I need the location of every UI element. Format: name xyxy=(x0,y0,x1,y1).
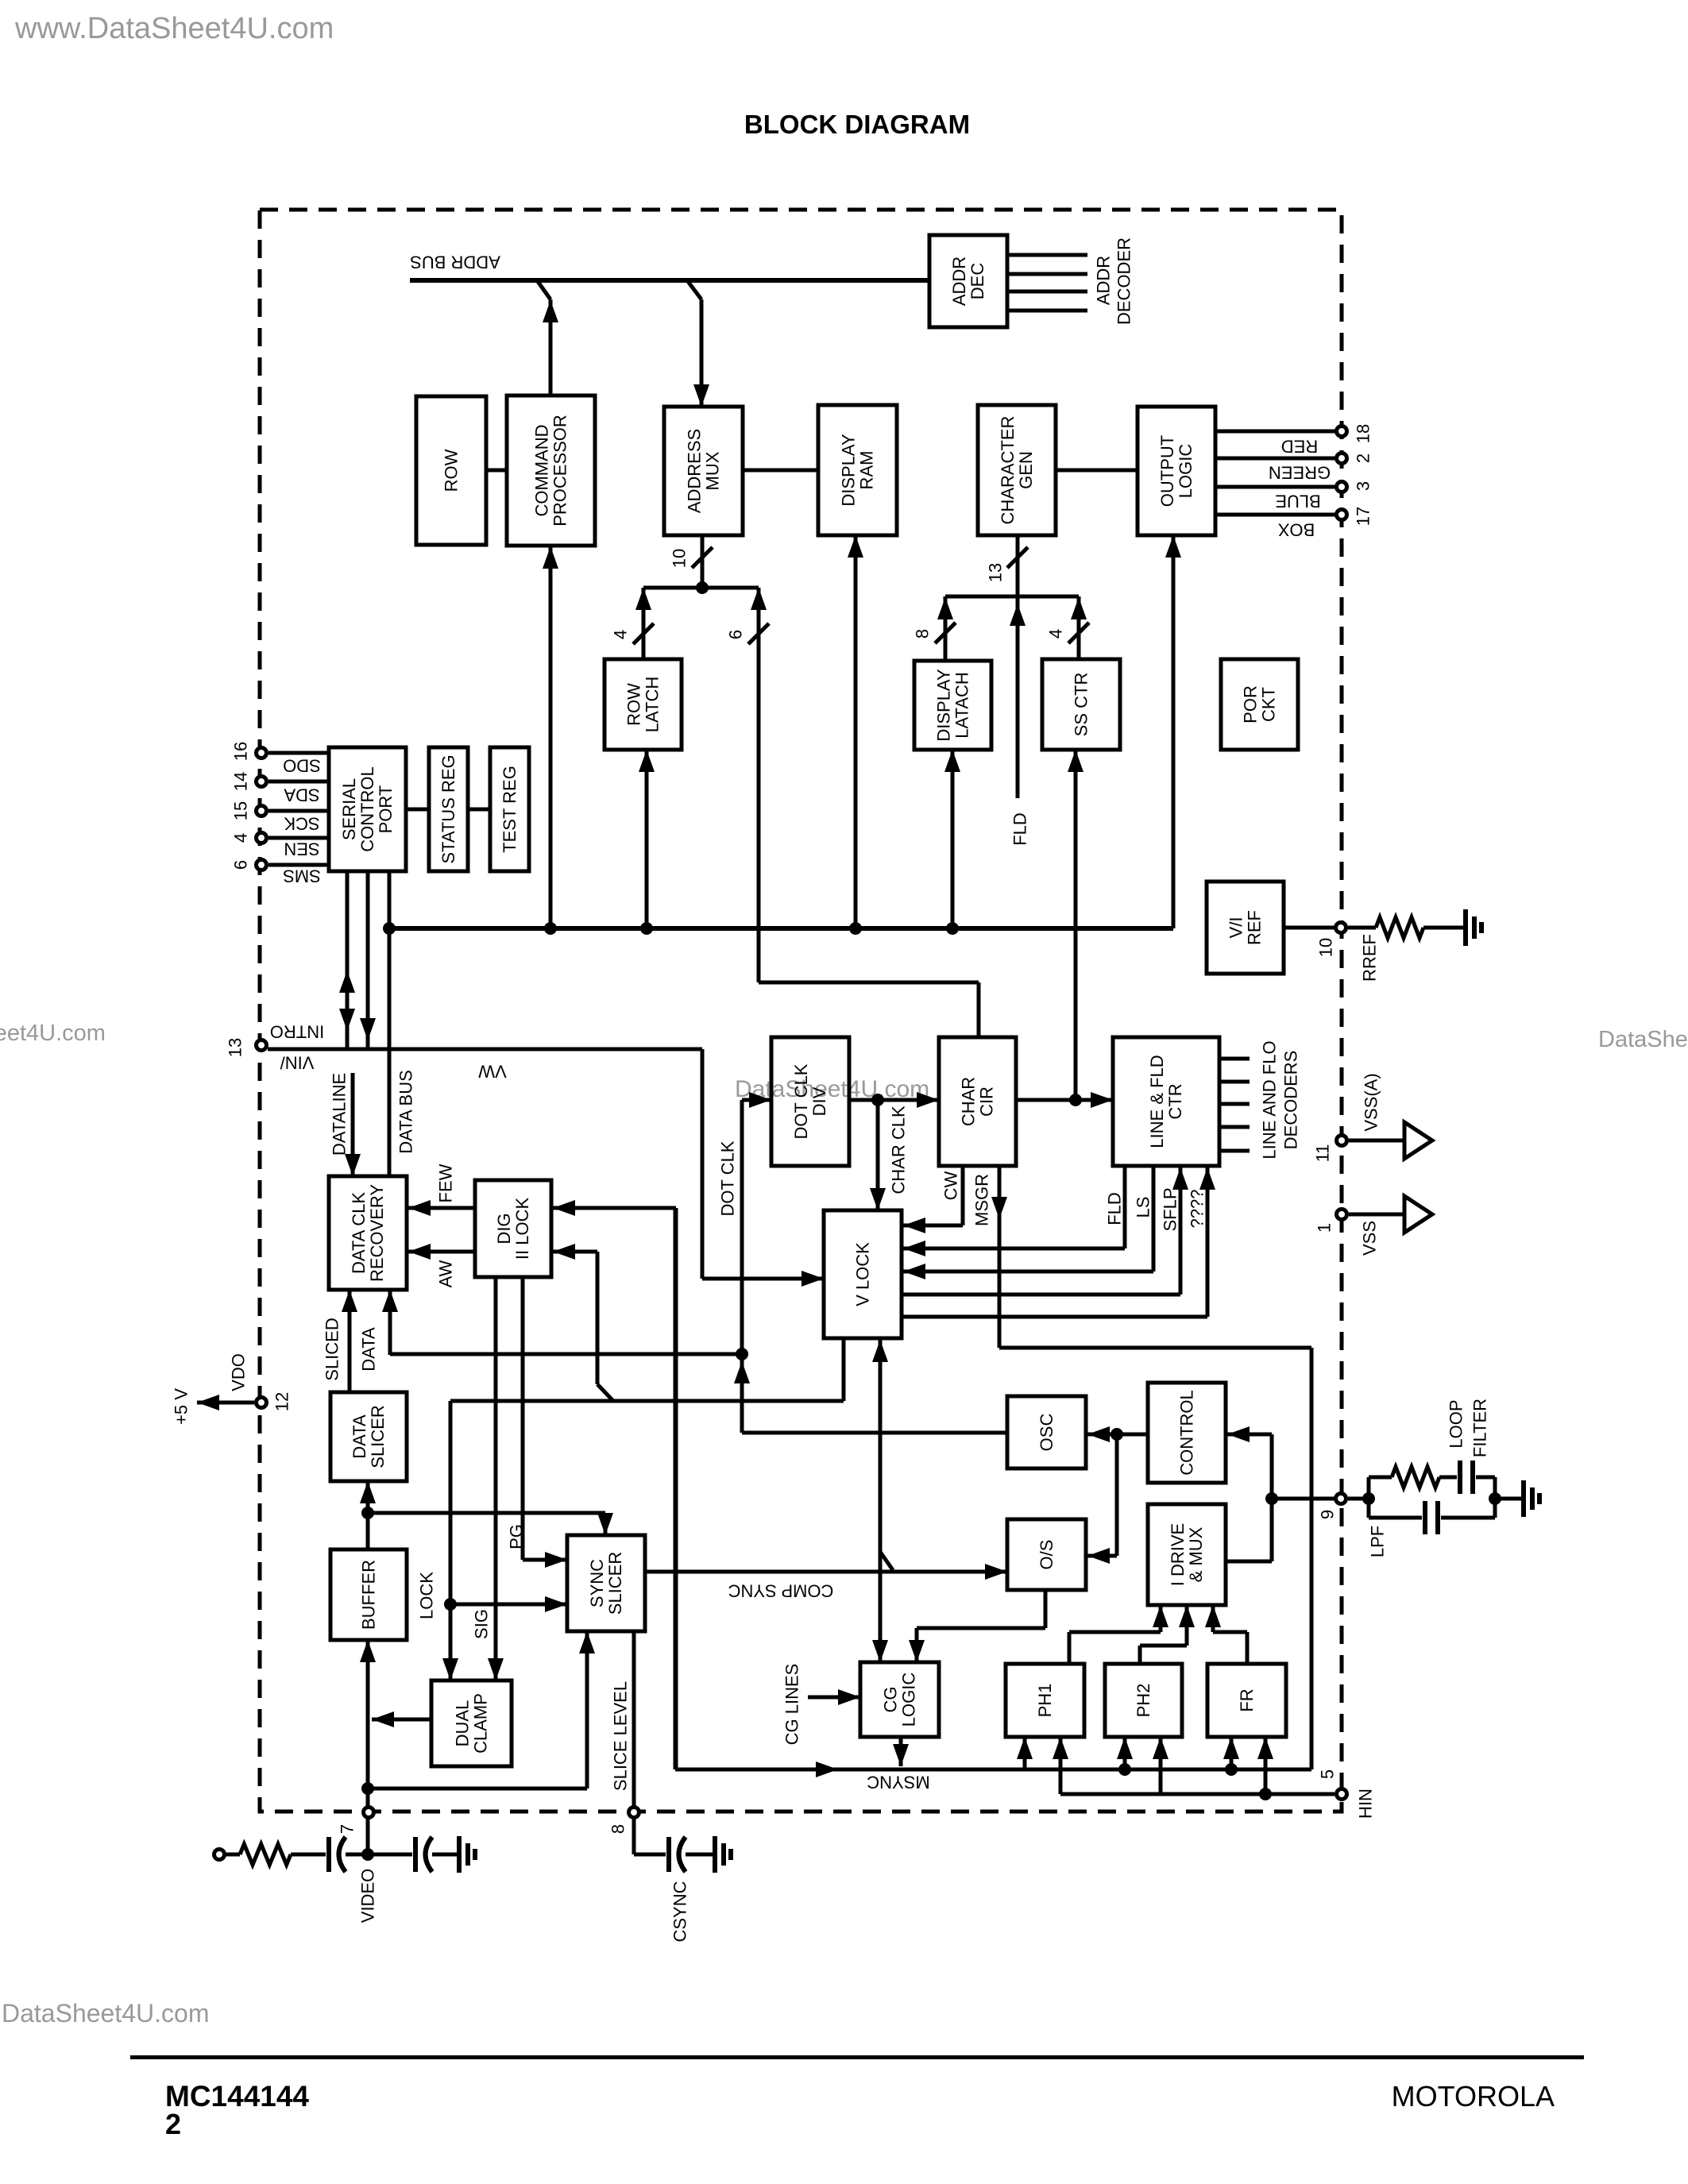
svg-text:10: 10 xyxy=(1316,938,1336,957)
svg-text:VIN/: VIN/ xyxy=(280,1052,315,1072)
svg-text:2: 2 xyxy=(1354,453,1373,463)
svg-text:????: ???? xyxy=(1188,1190,1207,1229)
svg-text:ADDR BUS: ADDR BUS xyxy=(410,252,500,272)
svg-text:5: 5 xyxy=(1318,1769,1338,1779)
svg-text:COMMANDPROCESSOR: COMMANDPROCESSOR xyxy=(532,415,570,527)
svg-text:O/S: O/S xyxy=(1037,1540,1056,1570)
svg-text:DUALCLAMP: DUALCLAMP xyxy=(453,1693,491,1754)
svg-text:BUFFER: BUFFER xyxy=(359,1560,379,1630)
svg-text:8: 8 xyxy=(913,629,933,639)
svg-text:CHAR CLK: CHAR CLK xyxy=(889,1106,909,1194)
svg-text:4: 4 xyxy=(611,630,631,639)
svg-text:ROWLATCH: ROWLATCH xyxy=(624,677,662,733)
svg-text:DataSheet4U.com: DataSheet4U.com xyxy=(0,1021,106,1046)
svg-text:15: 15 xyxy=(231,801,251,820)
svg-text:FLD: FLD xyxy=(1010,812,1030,846)
svg-text:SDO: SDO xyxy=(283,755,321,775)
svg-text:9: 9 xyxy=(1318,1510,1338,1519)
svg-text:BLOCK DIAGRAM: BLOCK DIAGRAM xyxy=(744,110,970,139)
svg-text:SFLP: SFLP xyxy=(1161,1187,1180,1231)
svg-text:6: 6 xyxy=(231,860,251,870)
svg-text:MOTOROLA: MOTOROLA xyxy=(1392,2080,1555,2113)
svg-text:13: 13 xyxy=(986,563,1006,582)
svg-text:SYNCSLICER: SYNCSLICER xyxy=(587,1552,625,1615)
svg-text:VDO: VDO xyxy=(229,1353,249,1391)
svg-text:1: 1 xyxy=(1315,1223,1335,1233)
svg-text:DataSheet4U.com: DataSheet4U.com xyxy=(735,1076,929,1102)
svg-text:I DRIVE& MUX: I DRIVE& MUX xyxy=(1168,1523,1206,1586)
svg-text:SEN: SEN xyxy=(284,839,319,859)
svg-text:DataSheet4U.com: DataSheet4U.com xyxy=(1598,1027,1688,1052)
svg-text:SMS: SMS xyxy=(283,866,321,886)
svg-text:DATA CLKRECOVERY: DATA CLKRECOVERY xyxy=(349,1184,387,1282)
svg-text:LPF: LPF xyxy=(1368,1526,1388,1557)
svg-text:LOOP: LOOP xyxy=(1447,1399,1466,1448)
svg-text:16: 16 xyxy=(231,742,251,761)
svg-text:SS CTR: SS CTR xyxy=(1072,673,1091,737)
svg-text:11: 11 xyxy=(1313,1144,1333,1163)
svg-text:CW: CW xyxy=(941,1171,961,1200)
svg-text:18: 18 xyxy=(1354,424,1373,443)
svg-text:CONTROL: CONTROL xyxy=(1177,1390,1197,1476)
svg-text:DISPLAYLATACH: DISPLAYLATACH xyxy=(934,669,972,742)
svg-text:ADDRDEC: ADDRDEC xyxy=(949,257,987,306)
svg-text:DataSheet4U.com: DataSheet4U.com xyxy=(2,1999,209,2028)
svg-text:RED: RED xyxy=(1281,436,1318,456)
svg-text:6: 6 xyxy=(726,630,746,639)
svg-text:DATALINE: DATALINE xyxy=(330,1073,350,1156)
svg-text:FEW: FEW xyxy=(436,1163,456,1202)
svg-text:DATA BUS: DATA BUS xyxy=(396,1070,416,1154)
svg-text:14: 14 xyxy=(231,772,251,791)
svg-text:2: 2 xyxy=(165,2108,181,2140)
svg-text:LOCK: LOCK xyxy=(417,1572,437,1619)
svg-text:DOT CLK: DOT CLK xyxy=(718,1140,738,1216)
svg-text:8: 8 xyxy=(608,1824,628,1834)
svg-text:ROW: ROW xyxy=(442,449,462,492)
svg-text:PORCKT: PORCKT xyxy=(1241,685,1279,723)
svg-text:RREF: RREF xyxy=(1360,934,1380,982)
svg-text:AW: AW xyxy=(436,1260,456,1287)
svg-text:DATA: DATA xyxy=(359,1327,379,1372)
svg-text:12: 12 xyxy=(272,1392,292,1411)
svg-text:www.DataSheet4U.com: www.DataSheet4U.com xyxy=(14,12,334,45)
svg-text:TEST REG: TEST REG xyxy=(500,766,520,853)
svg-text:SLICE LEVEL: SLICE LEVEL xyxy=(611,1681,631,1791)
svg-text:17: 17 xyxy=(1354,507,1373,526)
svg-text:MSYNC: MSYNC xyxy=(867,1772,930,1792)
svg-text:HIN: HIN xyxy=(1356,1788,1376,1819)
svg-text:COMP SYNC: COMP SYNC xyxy=(728,1580,833,1600)
svg-text:LS: LS xyxy=(1134,1197,1153,1218)
svg-text:OUTPUTLOGIC: OUTPUTLOGIC xyxy=(1157,435,1196,507)
svg-text:VIDEO: VIDEO xyxy=(358,1869,378,1923)
svg-text:PH1: PH1 xyxy=(1035,1684,1055,1718)
svg-text:V LOCK: V LOCK xyxy=(853,1242,873,1306)
svg-text:FILTER: FILTER xyxy=(1470,1399,1490,1457)
svg-text:+5 V: +5 V xyxy=(172,1388,191,1425)
svg-text:SCK: SCK xyxy=(284,813,320,833)
svg-text:VSS: VSS xyxy=(1360,1221,1380,1256)
svg-text:BOX: BOX xyxy=(1277,519,1315,539)
svg-text:OSC: OSC xyxy=(1037,1414,1056,1452)
svg-text:7: 7 xyxy=(338,1824,357,1834)
svg-text:MSGR: MSGR xyxy=(972,1174,992,1226)
svg-text:FR: FR xyxy=(1237,1688,1257,1711)
svg-text:LINE AND FLO: LINE AND FLO xyxy=(1260,1040,1280,1159)
svg-text:MC144144: MC144144 xyxy=(165,2080,309,2113)
svg-text:GREEN: GREEN xyxy=(1269,462,1331,482)
svg-text:3: 3 xyxy=(1354,481,1373,491)
svg-text:VW: VW xyxy=(478,1061,507,1081)
svg-text:BLUE: BLUE xyxy=(1275,491,1320,511)
svg-text:13: 13 xyxy=(226,1038,245,1057)
svg-text:DECODERS: DECODERS xyxy=(1281,1051,1301,1150)
svg-text:10: 10 xyxy=(670,549,689,568)
svg-text:PH2: PH2 xyxy=(1134,1684,1153,1718)
svg-text:SIG: SIG xyxy=(472,1609,492,1639)
svg-text:INTRO: INTRO xyxy=(270,1021,324,1041)
svg-text:VSS(A): VSS(A) xyxy=(1362,1073,1381,1131)
svg-text:SLICED: SLICED xyxy=(323,1318,342,1380)
svg-text:4: 4 xyxy=(231,833,251,843)
svg-text:FLD: FLD xyxy=(1105,1192,1125,1225)
svg-text:STATUS REG: STATUS REG xyxy=(438,754,458,863)
svg-text:SDA: SDA xyxy=(284,785,320,805)
svg-text:DECODER: DECODER xyxy=(1114,237,1134,325)
svg-text:CSYNC: CSYNC xyxy=(670,1881,690,1942)
svg-text:PG: PG xyxy=(507,1524,527,1549)
svg-text:4: 4 xyxy=(1046,629,1066,639)
svg-text:ADDR: ADDR xyxy=(1094,256,1114,305)
svg-text:CG LINES: CG LINES xyxy=(782,1664,802,1746)
